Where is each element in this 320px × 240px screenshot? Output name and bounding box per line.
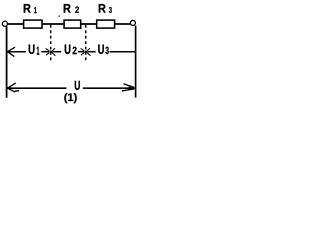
U total arrow shaft right <box>83 87 135 89</box>
arrowhead star at node line 2 <box>81 48 91 56</box>
label R2 <box>64 4 79 13</box>
dashed node line 1 (R1/R2 junction) <box>50 25 52 63</box>
wire: R1 to R2 <box>42 23 64 25</box>
U total arrow left head <box>8 83 20 92</box>
terminal circle left <box>2 21 7 26</box>
U1 arrow left head <box>8 47 16 56</box>
U1 arrow shaft left <box>8 51 26 53</box>
U total arrow shaft left <box>8 87 67 89</box>
U total arrow right head <box>122 84 134 91</box>
left vertical extension line <box>6 26 8 98</box>
label U3 <box>98 45 109 55</box>
U2 arrow shaft left <box>52 51 61 53</box>
label U2 <box>65 45 77 55</box>
stray speck left of R2 box <box>58 15 59 16</box>
wire: R3 to right circle <box>115 23 131 25</box>
label U total <box>75 81 80 90</box>
resistor R2 <box>64 20 81 28</box>
U3 arrow shaft right <box>109 51 135 53</box>
right vertical extension line <box>135 26 137 98</box>
label (1) <box>64 93 67 103</box>
resistor R3 <box>97 20 115 28</box>
label R3 <box>99 4 112 13</box>
arrowhead star at node line 1 <box>46 48 56 56</box>
U1 arrow shaft right <box>41 51 49 53</box>
dashed node line 2 (R2/R3 junction) <box>85 25 87 62</box>
wire: R2 to R3 <box>81 23 97 25</box>
U2 arrow shaft right <box>78 51 84 53</box>
resistor R1 <box>24 20 42 28</box>
terminal circle right <box>130 20 135 25</box>
label R1 <box>24 4 37 13</box>
U3 arrow shaft left <box>87 51 95 53</box>
label U1 <box>29 45 40 55</box>
wire: left circle to R1 <box>7 23 23 25</box>
